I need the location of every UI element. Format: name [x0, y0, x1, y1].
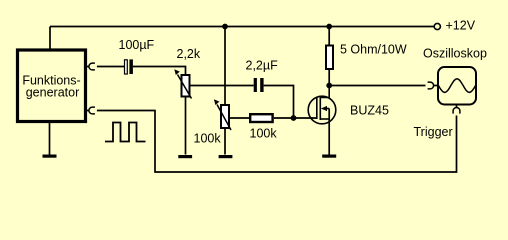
wire drain node to oscilloscope [329, 85, 425, 87]
svg-text:100µF: 100µF [119, 38, 155, 52]
capacitor 100µF negative plate (solid) [129, 59, 133, 74]
svg-text:100k: 100k [194, 132, 222, 146]
svg-text:Trigger: Trigger [414, 125, 453, 139]
transistor source segment [320, 118, 329, 120]
connector oscilloscope input arc [428, 82, 434, 89]
connector trigger stub [456, 105, 458, 108]
wire 2,2µF to gate node [264, 86, 294, 119]
ground 100k pot [219, 155, 233, 158]
connector generator output 1 stub [87, 66, 89, 68]
connector generator output 2 arc [89, 107, 95, 114]
junction drain node [326, 83, 332, 89]
transistor channel bar [319, 97, 321, 121]
wire +12V rail [50, 26, 434, 28]
wire rail down to 100k pot top [224, 27, 226, 106]
square wave symbol [105, 123, 146, 142]
wire generator ground lead [49, 123, 51, 155]
oscilloscope box [438, 67, 476, 105]
oscilloscope sine wave [439, 79, 476, 93]
svg-text:generator: generator [26, 86, 80, 100]
wire generator top to rail [49, 27, 51, 49]
junction rail to 100k pot [222, 24, 228, 30]
svg-text:BUZ45: BUZ45 [350, 104, 389, 118]
svg-text:5 Ohm/10W: 5 Ohm/10W [340, 42, 407, 56]
connector oscilloscope input stub [434, 85, 438, 87]
svg-text:Oszilloskop: Oszilloskop [423, 46, 487, 60]
wire source to ground [328, 109, 330, 155]
svg-text:2,2µF: 2,2µF [246, 59, 279, 73]
junction gate node [291, 115, 297, 121]
connector generator output 1 arc [89, 63, 95, 70]
transistor drain segment [320, 86, 329, 98]
ground MOSFET source [322, 155, 336, 158]
potentiometer 2,2k body [182, 75, 190, 97]
wire 2,2k wiper to 2,2µF capacitor [191, 85, 254, 87]
connector generator output 2 stub [87, 110, 89, 112]
svg-text:+12V: +12V [446, 19, 476, 33]
wire trigger to generator output 2 [97, 111, 457, 173]
potentiometer 100k body [221, 105, 229, 128]
potentiometer 2,2k adjust arrow [178, 75, 192, 99]
resistor 100k body [250, 114, 272, 122]
wire 100k pot wiper to resistor [229, 117, 250, 119]
resistor 5 Ohm/10W body [326, 46, 333, 70]
transistor BUZ45 circle [308, 96, 336, 124]
functions generator box [18, 50, 86, 122]
wire 100k pot bottom to ground [224, 129, 226, 155]
wire capacitor to 2,2k pot [133, 67, 186, 75]
resistor 5 Ohm/10W leads [328, 27, 330, 86]
capacitor 2,2µF right plate [260, 78, 263, 92]
ground generator [43, 155, 57, 158]
terminal +12V open circle [434, 23, 440, 29]
potentiometer 100k adjust arrow [217, 105, 231, 131]
wire output 1 to capacitor [97, 66, 124, 68]
capacitor 2,2µF left plate [254, 78, 257, 92]
transistor bulk segment with arrow [325, 108, 330, 110]
capacitor 100µF positive plate (hollow) [125, 60, 128, 74]
connector trigger arc [453, 108, 460, 114]
transistor gate bar [316, 98, 318, 120]
svg-text:2,2k: 2,2k [177, 47, 201, 61]
ground 2,2k pot [178, 155, 192, 158]
svg-text:100k: 100k [250, 127, 278, 141]
wire resistor to MOSFET gate [274, 117, 317, 119]
wire 2,2k bottom to ground [185, 98, 187, 155]
junction rail to 5 Ohm resistor [326, 24, 332, 30]
